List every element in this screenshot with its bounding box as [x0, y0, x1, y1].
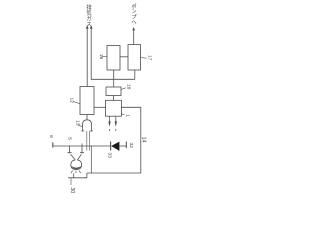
label 14 (right of loop wire) [141, 137, 147, 143]
wire box17 bottom down to bus [134, 70, 136, 79]
main horizontal wire y=146 [53, 145, 110, 147]
wire exhaust line left (with up arrow) [86, 29, 88, 87]
leader wire label30 [70, 178, 72, 185]
wire box18 to box1 [113, 96, 115, 101]
wire exhaust line right bending to bus (with up arrow) [91, 29, 135, 80]
label 17 [147, 55, 153, 61]
box 18 (small horizontal box) [106, 87, 121, 96]
label 5 (above collar) [66, 137, 72, 140]
label (above terminal) [48, 135, 54, 138]
label 1 [124, 114, 130, 117]
svg-text:18: 18 [126, 84, 132, 90]
svg-text:30: 30 [69, 187, 75, 193]
label 18 [126, 84, 132, 90]
svg-text:6: 6 [48, 135, 54, 138]
leader wire label12 [73, 102, 80, 104]
label 33 (below diode) [107, 152, 113, 158]
leader wire label13 [78, 125, 82, 126]
node label 排気ガス (vertical text top-left) [86, 4, 92, 29]
diode D (cathode bar left, filled triangle) [110, 142, 112, 151]
wire box12 to box1 [94, 106, 106, 108]
collar electrode ring [70, 144, 82, 153]
label 12 [69, 97, 75, 103]
wire between box16 and box17 [120, 56, 128, 58]
wire bulb down to bottom bus [73, 173, 75, 177]
node label ポンプへ (vertical text top-right) [131, 2, 137, 26]
svg-text:1: 1 [124, 114, 130, 117]
wire box12 bottom to nozzle dome [86, 115, 88, 120]
bottom bus B [68, 177, 87, 179]
leader wire label1 [121, 113, 124, 116]
box 1 (square control box) [106, 100, 122, 116]
wire pump line (with up arrow) [133, 31, 135, 45]
svg-text:32: 32 [128, 142, 134, 148]
terminal tick (left electrode terminal) [52, 142, 54, 147]
box 17 (right small box) [128, 45, 141, 70]
svg-text:17: 17 [147, 55, 153, 61]
label 13 [74, 120, 80, 126]
label 16 [98, 54, 104, 60]
tube below dome [87, 131, 90, 151]
terminal tick 2 [125, 142, 127, 149]
jog up to bus A [86, 173, 88, 178]
leader wire label16 [102, 56, 107, 58]
corona electrodes under box1 [110, 116, 116, 121]
wire box1 right loop down [87, 107, 141, 173]
svg-text:13: 13 [74, 120, 80, 126]
svg-text:12: 12 [69, 97, 75, 103]
nozzle dome 13 [83, 120, 92, 131]
bulb vessel (droplet) [71, 160, 82, 170]
funnel cone [71, 154, 82, 160]
liquid fill in bulb [71, 166, 81, 169]
leader wire label17 [141, 57, 147, 60]
label 30 (below bulb) [69, 187, 75, 193]
svg-text:へ: へ [131, 20, 136, 26]
svg-text:33: 33 [107, 152, 113, 158]
box 16 (left small box) [107, 46, 120, 71]
svg-text:14: 14 [141, 137, 147, 143]
svg-text:5: 5 [66, 137, 72, 140]
wire box16 bottom down to box 18 [113, 70, 115, 87]
spray marks below bulb [71, 171, 81, 173]
leader wire label18 [121, 88, 126, 90]
box 12 (tall sprayer body) [80, 87, 94, 115]
wire dome-foot down to bus A [90, 146, 92, 173]
label 32 (right of tick2) [128, 142, 134, 148]
